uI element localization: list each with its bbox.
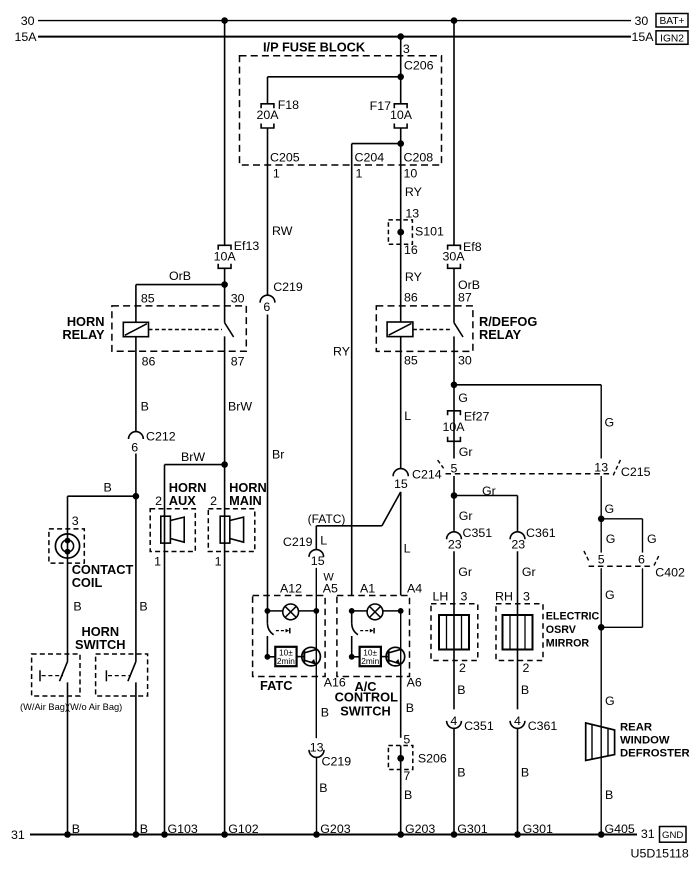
svg-text:1: 1 (273, 167, 280, 181)
svg-text:87: 87 (231, 355, 245, 369)
svg-text:B: B (141, 400, 149, 414)
svg-text:WINDOW: WINDOW (620, 734, 670, 746)
svg-text:23: 23 (511, 538, 525, 552)
svg-text:COIL: COIL (72, 575, 103, 590)
svg-text:BAT+: BAT+ (659, 16, 684, 27)
svg-text:S206: S206 (418, 751, 447, 765)
svg-text:ELECTRIC: ELECTRIC (546, 611, 600, 623)
svg-text:MIRROR: MIRROR (546, 637, 590, 649)
svg-text:B: B (406, 701, 414, 715)
svg-text:G103: G103 (168, 822, 198, 836)
svg-text:L: L (404, 409, 411, 423)
svg-text:RY: RY (405, 185, 422, 199)
svg-text:(W/Air Bag): (W/Air Bag) (20, 702, 68, 712)
svg-text:G301: G301 (457, 822, 487, 836)
svg-text:10A: 10A (214, 250, 237, 264)
svg-text:B: B (321, 705, 329, 719)
svg-text:L: L (404, 542, 411, 556)
svg-text:30A: 30A (442, 249, 465, 263)
svg-text:Ef13: Ef13 (234, 239, 260, 253)
svg-text:C214: C214 (412, 467, 442, 481)
svg-text:RY: RY (333, 345, 350, 359)
svg-text:3: 3 (403, 42, 410, 56)
svg-text:Ef8: Ef8 (463, 240, 482, 254)
svg-text:Br: Br (272, 448, 284, 462)
svg-text:(W/o Air Bag): (W/o Air Bag) (67, 702, 122, 712)
svg-text:31: 31 (641, 827, 655, 841)
svg-text:C361: C361 (526, 526, 556, 540)
svg-text:(FATC): (FATC) (308, 512, 346, 526)
svg-text:5: 5 (403, 733, 410, 747)
svg-text:6: 6 (131, 440, 138, 454)
svg-text:30: 30 (231, 292, 245, 306)
svg-text:F17: F17 (370, 99, 391, 113)
svg-text:AUX: AUX (169, 493, 196, 508)
svg-text:Gr: Gr (522, 565, 536, 579)
svg-text:LH: LH (433, 590, 449, 604)
svg-text:RELAY: RELAY (62, 327, 105, 342)
svg-text:B: B (104, 480, 112, 494)
svg-text:Gr: Gr (458, 565, 472, 579)
svg-text:C206: C206 (404, 58, 434, 72)
svg-text:C219: C219 (283, 535, 313, 549)
svg-text:L: L (320, 533, 327, 547)
svg-text:G301: G301 (523, 822, 553, 836)
svg-text:2min: 2min (361, 656, 379, 666)
svg-text:G: G (606, 532, 616, 546)
svg-text:F18: F18 (278, 98, 299, 112)
svg-text:A6: A6 (407, 675, 422, 689)
svg-text:2: 2 (210, 494, 217, 508)
svg-text:RH: RH (495, 590, 513, 604)
svg-text:U5D15118: U5D15118 (631, 847, 689, 861)
svg-text:MAIN: MAIN (229, 493, 262, 508)
svg-text:Ef27: Ef27 (464, 409, 490, 423)
svg-text:IGN2: IGN2 (660, 33, 684, 44)
svg-text:B: B (457, 683, 465, 697)
svg-text:C219: C219 (322, 754, 352, 768)
svg-text:30: 30 (21, 14, 35, 28)
svg-text:10A: 10A (442, 420, 465, 434)
svg-text:85: 85 (141, 292, 155, 306)
svg-text:2: 2 (459, 661, 466, 675)
svg-text:86: 86 (404, 290, 418, 304)
svg-text:87: 87 (458, 290, 472, 304)
svg-text:23: 23 (448, 538, 462, 552)
svg-text:B: B (72, 822, 80, 836)
svg-text:1: 1 (154, 555, 161, 569)
svg-text:20A: 20A (256, 108, 279, 122)
svg-text:BrW: BrW (181, 450, 205, 464)
svg-text:A16: A16 (324, 675, 346, 689)
svg-text:7: 7 (403, 769, 410, 783)
svg-text:OSRV: OSRV (546, 624, 577, 636)
svg-text:G203: G203 (405, 822, 435, 836)
svg-text:3: 3 (523, 590, 530, 604)
svg-text:3: 3 (461, 590, 468, 604)
svg-text:C351: C351 (463, 526, 493, 540)
svg-text:S101: S101 (415, 224, 444, 238)
svg-text:GND: GND (662, 830, 683, 841)
svg-text:B: B (457, 766, 465, 780)
svg-text:RY: RY (405, 270, 422, 284)
svg-text:B: B (73, 600, 81, 614)
svg-text:C219: C219 (273, 280, 303, 294)
svg-text:3: 3 (72, 514, 79, 528)
svg-text:15: 15 (311, 554, 325, 568)
svg-text:A4: A4 (407, 581, 422, 595)
svg-text:C402: C402 (655, 566, 685, 580)
svg-text:15A: 15A (632, 30, 655, 44)
svg-text:B: B (605, 788, 613, 802)
svg-text:G: G (605, 502, 615, 516)
svg-text:10A: 10A (390, 108, 413, 122)
svg-text:16: 16 (404, 243, 418, 257)
svg-text:Gr: Gr (459, 445, 473, 459)
svg-text:15: 15 (394, 477, 408, 491)
svg-text:Gr: Gr (459, 509, 473, 523)
svg-text:31: 31 (11, 828, 25, 842)
svg-text:15A: 15A (14, 30, 37, 44)
svg-text:13: 13 (310, 740, 324, 754)
svg-text:4: 4 (514, 714, 521, 728)
svg-text:RW: RW (272, 224, 293, 238)
svg-text:G: G (647, 532, 657, 546)
svg-text:2min: 2min (277, 656, 295, 666)
svg-text:G: G (605, 588, 615, 602)
svg-text:C204: C204 (355, 150, 385, 164)
svg-text:B: B (521, 766, 529, 780)
svg-text:SWITCH: SWITCH (340, 704, 390, 719)
svg-text:2: 2 (523, 661, 530, 675)
svg-text:G203: G203 (320, 822, 350, 836)
svg-text:G405: G405 (605, 822, 635, 836)
svg-text:B: B (139, 600, 147, 614)
svg-text:OrB: OrB (169, 269, 191, 283)
svg-text:B: B (140, 822, 148, 836)
svg-text:CONTROL: CONTROL (335, 689, 398, 704)
svg-text:5: 5 (598, 553, 605, 567)
svg-text:10: 10 (404, 167, 418, 181)
svg-text:A1: A1 (360, 581, 375, 595)
svg-text:G102: G102 (228, 822, 258, 836)
svg-text:RELAY: RELAY (479, 327, 522, 342)
svg-text:A5: A5 (323, 581, 338, 595)
svg-text:1: 1 (215, 555, 222, 569)
svg-text:85: 85 (404, 354, 418, 368)
svg-text:B: B (404, 788, 412, 802)
svg-text:30: 30 (635, 14, 649, 28)
svg-text:G: G (605, 694, 615, 708)
svg-text:C212: C212 (146, 429, 176, 443)
svg-text:1: 1 (356, 167, 363, 181)
svg-text:C351: C351 (464, 719, 494, 733)
svg-text:C208: C208 (404, 150, 434, 164)
svg-text:2: 2 (155, 494, 162, 508)
svg-text:86: 86 (142, 355, 156, 369)
svg-text:4: 4 (450, 714, 457, 728)
svg-text:Gr: Gr (482, 484, 496, 498)
svg-text:B: B (319, 781, 327, 795)
svg-text:C215: C215 (621, 465, 651, 479)
svg-text:13: 13 (594, 461, 608, 475)
svg-text:DEFROSTER: DEFROSTER (620, 747, 690, 759)
svg-text:G: G (605, 416, 615, 430)
svg-text:A12: A12 (280, 581, 302, 595)
svg-text:REAR: REAR (620, 721, 652, 733)
svg-text:FATC: FATC (260, 678, 292, 693)
svg-text:C205: C205 (270, 150, 300, 164)
svg-text:6: 6 (638, 553, 645, 567)
svg-text:SWITCH: SWITCH (75, 637, 125, 652)
svg-text:13: 13 (405, 206, 419, 220)
svg-text:BrW: BrW (228, 400, 252, 414)
svg-text:G: G (458, 391, 468, 405)
svg-text:30: 30 (458, 354, 472, 368)
svg-text:I/P FUSE BLOCK: I/P FUSE BLOCK (263, 40, 366, 55)
svg-text:6: 6 (263, 300, 270, 314)
svg-text:C361: C361 (528, 719, 558, 733)
svg-text:B: B (521, 683, 529, 697)
